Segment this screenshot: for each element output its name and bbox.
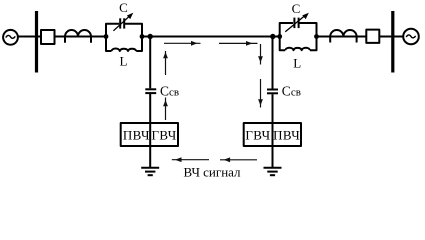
svg-text:ГВЧ: ГВЧ xyxy=(245,128,270,143)
svg-text:L: L xyxy=(293,56,301,71)
svg-text:C: C xyxy=(119,0,128,15)
svg-text:ГВЧ: ГВЧ xyxy=(151,128,176,143)
svg-text:Ссв: Ссв xyxy=(282,84,301,99)
svg-text:ВЧ сигнал: ВЧ сигнал xyxy=(183,164,241,179)
svg-text:L: L xyxy=(120,53,128,68)
svg-text:C: C xyxy=(292,1,301,16)
svg-text:ПВЧ: ПВЧ xyxy=(273,128,300,143)
svg-text:Ссв: Ссв xyxy=(160,84,179,99)
svg-text:ПВЧ: ПВЧ xyxy=(123,128,150,143)
